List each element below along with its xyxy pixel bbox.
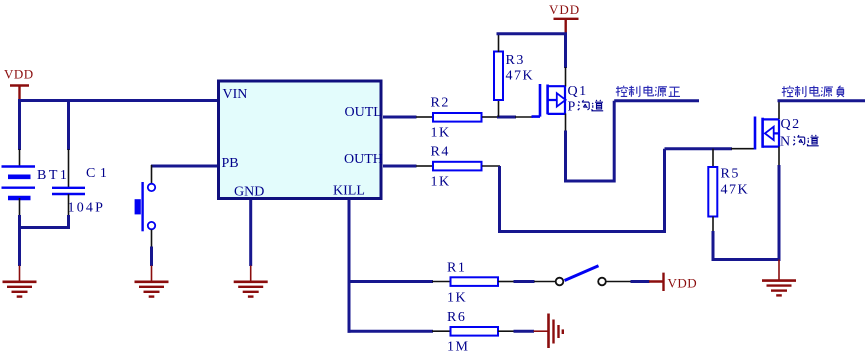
svg-text:104P: 104P [68,201,106,216]
R6 left lead [432,330,450,332]
ground (U1 GND) [234,266,268,297]
svg-text:PB: PB [222,156,239,171]
transistor Q1 (P-channel MOSFET) [532,84,604,117]
resistor R6 [447,310,498,353]
svg-text:1K: 1K [431,175,451,190]
wire R6 to signal ground [514,330,535,333]
svg-text:R6: R6 [447,310,466,325]
capacitor C1 top pin lead [68,149,70,187]
Q2 gate lead [731,148,755,150]
wire VDD rail to VIN [18,99,218,102]
svg-text:VIN: VIN [223,87,248,102]
R3 bottom lead [498,100,500,117]
wire drop to C1 top [67,101,70,151]
capacitor C1 [52,166,111,216]
pushbutton S bottom lead [151,230,153,248]
wire OUTH to R4 [383,165,417,168]
net label 控制电源正 [616,86,680,97]
wire Q1 drain to net 控制电源正 [564,101,699,183]
transistor Q2 (N-channel MOSFET) [755,117,819,150]
svg-text:BT1: BT1 [37,168,69,183]
svg-text:GND: GND [234,185,264,200]
svg-text:47K: 47K [506,69,535,84]
lead node to Q1 gate [515,116,533,118]
R6 right lead [498,330,514,332]
switch S1 [556,266,606,286]
R2 left lead [416,116,432,118]
svg-text:R3: R3 [506,53,525,68]
switch S1 left lead [534,281,556,283]
wire net 控制电源负 [778,99,865,102]
label P沟道 glyphs [578,100,589,110]
resistor R2 [431,96,482,141]
wire KILL to R1 [348,280,434,283]
svg-text:Q2: Q2 [781,117,801,132]
R4 left lead [416,165,432,167]
power symbol VDD top-left [4,67,34,100]
svg-text:OUTL: OUTL [345,105,382,120]
resistor R3 [494,52,534,101]
wire KILL to R6 [348,330,434,333]
battery BT1 bottom pin lead [19,198,21,216]
net label 控制电源负 [782,86,844,97]
resistor R1 [447,261,498,306]
power symbol VDD top-middle [549,2,580,33]
R3 top lead [498,34,500,52]
svg-text:VDD: VDD [668,276,698,291]
wire R5 bottom to ground rail [712,231,781,261]
svg-text:1K: 1K [447,291,467,306]
wire battery/C1 bottom rail [18,215,70,266]
ground (pushbutton) [135,266,169,297]
op-amp U1 (control IC) [219,81,383,200]
svg-text:1M: 1M [447,340,469,353]
svg-text:C1: C1 [86,166,111,181]
Q1 drain lead (bottom) [565,114,567,132]
ground (Q2/R5) [762,260,796,296]
wire switch to VDD [631,280,650,283]
Q2 drain lead (top) [778,100,780,119]
label N沟道 glyphs [793,135,804,145]
svg-text:KILL: KILL [333,184,365,199]
wire U1 GND pin down [249,200,252,266]
svg-text:R5: R5 [721,167,740,182]
svg-text:R2: R2 [431,96,450,111]
wire pushbutton to ground [150,247,153,267]
wire R1 to switch [514,280,535,283]
R1 right lead [498,281,514,283]
battery BT1 top pin lead [19,149,21,166]
R4 right lead [482,165,500,167]
wire drop to battery positive [18,99,21,150]
R5 top lead [712,149,714,167]
R5 bottom lead [712,217,714,233]
wire Q2 source to ground [778,165,781,261]
resistor R4 [431,145,482,190]
svg-text:VDD: VDD [549,2,580,17]
battery BT1 [2,167,70,199]
R2 right lead [482,116,498,118]
pushbutton S top lead [151,165,153,184]
svg-text:Q1: Q1 [568,84,588,99]
svg-text:OUTH: OUTH [344,152,383,167]
R1 left lead [432,281,450,283]
pushbutton S [135,182,156,231]
svg-text:47K: 47K [721,183,750,198]
signal ground (R6, rotated) [534,314,563,349]
switch S1 right lead [606,281,631,283]
svg-text:N: N [780,135,790,150]
svg-text:R4: R4 [431,145,450,160]
svg-text:VDD: VDD [4,67,34,82]
wire node R2/R3/Q1 gate [497,116,516,119]
Q2 source lead (bottom) [778,147,780,167]
wire R4 to Q2 gate [498,149,732,233]
capacitor C1 bottom pin lead [68,194,70,216]
svg-text:1K: 1K [431,126,451,141]
power symbol VDD right [649,273,697,291]
wire VDD to R3 and Q1 source [497,34,568,68]
ground (battery) [3,266,37,297]
svg-text:P: P [568,100,576,115]
Q1 source lead (top) [565,67,567,87]
svg-text:R1: R1 [447,261,466,276]
wire PB pin to pushbutton [151,165,218,168]
resistor R5 [708,167,749,217]
wire KILL pin down [348,200,351,333]
wire OUTL to R2 [383,116,417,119]
